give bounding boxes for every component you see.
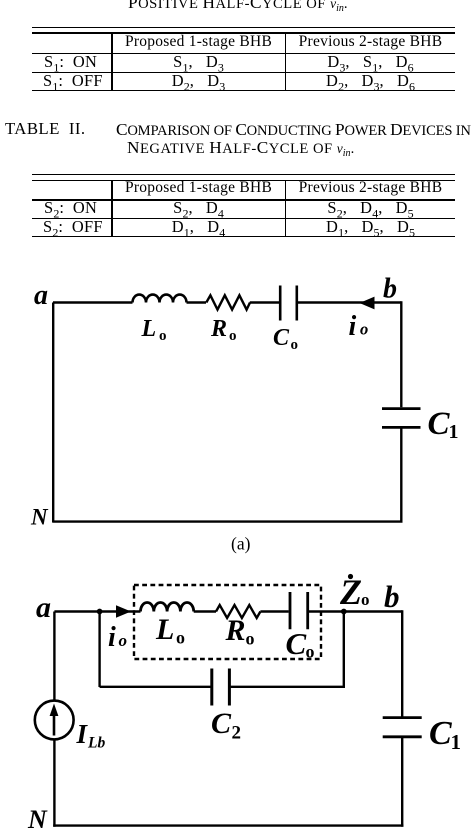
svg-text:(a): (a) [231,534,251,554]
wire middle branch right [231,686,345,688]
wire: resistor to Co [250,301,279,303]
label io [108,622,127,653]
inductor Lo [133,295,187,303]
svg-text:o: o [119,631,128,650]
label Ro [225,614,255,649]
capacitor Co plates [290,592,308,629]
svg-text:a: a [34,280,48,311]
label Ro [210,316,237,344]
wire: inductor to resistor [194,610,216,612]
wire: Co to corner b [309,610,402,612]
capacitor C1 plates [382,409,421,428]
wire left lower [53,739,55,827]
svg-text:1: 1 [449,421,459,443]
label ILb [76,719,106,752]
wire: Co to corner b [298,301,401,303]
svg-text:C: C [211,707,232,740]
svg-text:b: b [384,579,400,614]
svg-text:o: o [361,590,370,609]
wire left upper [53,612,55,702]
svg-text:i: i [108,622,116,653]
svg-text:1: 1 [451,730,462,754]
resistor Ro [216,605,260,618]
current arrow io (pointing left) [360,297,375,310]
current source arrow [53,712,56,736]
svg-text:R: R [225,614,246,647]
svg-text:C: C [273,325,290,351]
inductor Lo [141,603,194,612]
resistor Ro [206,295,250,309]
label Zo [339,572,370,612]
current direction arrow io (pointing right) [116,605,131,618]
wire top: a to inductor [54,610,140,612]
svg-text:N: N [30,505,49,530]
label Lo [141,316,167,344]
wire left [52,303,54,523]
svg-text:C: C [286,626,307,661]
svg-text:o: o [159,328,167,344]
wire middle branch left [100,686,211,688]
svg-text:2: 2 [232,723,242,744]
dashed box Zo [134,585,321,659]
junction dot right [341,609,347,615]
label Co [273,325,298,353]
wire bottom [52,520,402,522]
svg-text:L: L [155,613,174,646]
svg-text:Lb: Lb [87,735,105,752]
label C1 [428,406,459,443]
current source ILb circle [35,701,74,740]
svg-text:C: C [428,406,451,442]
wire right upper [400,301,402,407]
top partial caption line: POSITIVE HALF-CYCLE OF v_in. [0,0,474,14]
svg-text:I: I [76,719,89,749]
label Lo [155,613,185,648]
wire right lower [400,429,402,523]
wire right lower [401,738,403,827]
svg-text:i: i [349,311,357,342]
svg-text:o: o [229,328,237,344]
wire drop left (junction to C2 branch) [98,612,100,688]
svg-text:b: b [383,274,397,305]
svg-text:o: o [246,629,255,649]
wire top: a corner to inductor [53,301,133,303]
wire: inductor to resistor [187,301,207,303]
junction dot left [97,609,103,615]
svg-text:N: N [27,805,48,834]
capacitor C1 plates [383,718,422,737]
label C1 [429,715,461,754]
wire right upper [401,610,403,716]
wire: resistor to Co [260,610,288,612]
wire drop right (junction to C2 branch) [343,612,345,688]
svg-text:o: o [176,628,185,648]
svg-text:a: a [36,591,51,624]
capacitor C2 plates [212,669,230,706]
label Co [286,626,315,662]
label C2 [211,707,241,744]
svg-text:C: C [429,715,452,752]
wire bottom [53,824,403,826]
svg-text:L: L [141,316,157,342]
svg-text:o: o [291,337,299,353]
svg-text:R: R [210,316,227,342]
capacitor Co plates [280,286,297,321]
svg-text:o: o [306,642,315,662]
label io [349,311,369,342]
svg-text:o: o [360,320,368,339]
